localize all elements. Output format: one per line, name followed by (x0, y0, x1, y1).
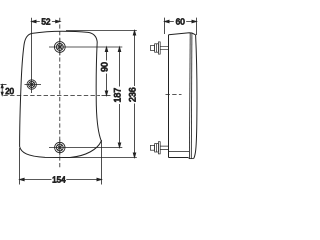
dimension 90 (105, 47, 108, 96)
inner housing line near bottom (169, 151, 190, 153)
svg-text:20: 20 (5, 87, 14, 96)
svg-text:154: 154 (52, 176, 66, 185)
lamp body outline (front view) (20, 31, 102, 146)
svg-text:60: 60 (176, 18, 186, 27)
bottom extension line for 236 (62, 157, 137, 159)
bottom stud (front view) (55, 140, 65, 156)
left stud (front view) (25, 80, 42, 89)
top stud (front view) (54, 38, 65, 55)
lens ring line 1 (188, 33, 191, 159)
bottom side stud (150, 142, 168, 154)
top edge (169, 33, 196, 35)
svg-text:90: 90 (99, 62, 109, 72)
dimension 60 (165, 20, 197, 23)
dimension 154 (20, 178, 102, 181)
top extension line for 236 (66, 30, 137, 32)
bottom edge curve of lens (20, 141, 102, 158)
dimension 236 (133, 31, 136, 158)
svg-text:236: 236 (127, 87, 137, 102)
housing bottom (169, 157, 189, 159)
extension lines for 60 (165, 18, 197, 35)
lens ring line 2 (190, 33, 193, 159)
lens bottom closing (189, 158, 194, 160)
short extension tick for 90 dim (102, 95, 111, 97)
svg-text:52: 52 (41, 18, 51, 27)
lens outer front edge (194, 35, 197, 159)
top stud centerline extension to dims (49, 46, 122, 48)
dimension 187 (118, 47, 121, 148)
top side stud (150, 42, 168, 54)
horizontal dashed reference line (3, 95, 100, 97)
bottom stud centerline extension to dims (49, 147, 122, 149)
mounting face line (168, 35, 170, 158)
extension lines for 154 (20, 140, 102, 185)
dimension 52 (32, 20, 61, 23)
svg-text:187: 187 (112, 88, 122, 103)
extension line for 52 through left stud (31, 18, 33, 93)
dashed line continuation in side view (166, 94, 182, 96)
dimension 20 (1, 85, 7, 96)
vertical centerline through studs (59, 18, 61, 168)
